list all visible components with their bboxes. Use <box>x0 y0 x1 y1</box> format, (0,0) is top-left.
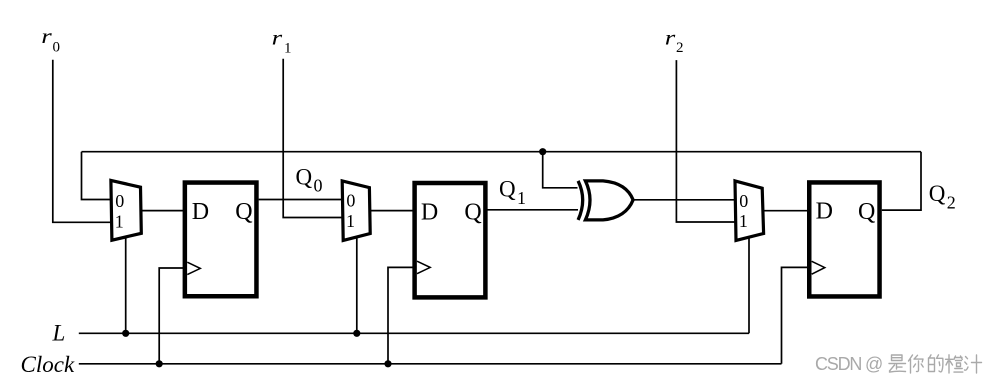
svg-text:r: r <box>665 26 677 50</box>
node r0 label <box>41 24 60 55</box>
wire mux2 output to FF2 D <box>370 210 412 212</box>
wire r2 vertical to mux3 input 1 <box>676 60 735 222</box>
wire feedback left vertical to mux1 input 0 <box>82 152 111 200</box>
wire r1 vertical to mux2 input 1 <box>283 59 342 218</box>
xor gate <box>578 181 633 220</box>
node Q1 label <box>499 176 526 208</box>
wire mux2 select down to L line <box>356 237 358 334</box>
wire FF2 Q output to xor bottom input <box>488 209 579 211</box>
svg-text:Q: Q <box>929 181 946 206</box>
svg-text:2: 2 <box>676 40 684 56</box>
svg-text:0: 0 <box>314 176 323 196</box>
svg-text:0: 0 <box>739 191 748 211</box>
svg-text:D: D <box>192 199 209 225</box>
wire Q2 output to feedback corner <box>882 152 921 210</box>
svg-text:D: D <box>421 199 438 225</box>
junction dot mux2 select on L <box>353 330 360 337</box>
wire mux3 output to FF3 D <box>764 210 808 212</box>
wire FF3 clock from Clock line end <box>782 267 810 363</box>
wire L line <box>79 332 749 334</box>
svg-text:L: L <box>52 321 66 346</box>
mux M1 <box>111 180 141 240</box>
junction dot FF1 clock on Clock <box>156 360 163 367</box>
wire xor output to mux3 input 0 <box>634 199 735 201</box>
junction dot mux1 select on L <box>122 330 129 337</box>
svg-text:2: 2 <box>947 192 956 212</box>
svg-text:1: 1 <box>346 211 355 231</box>
wire FF1 Q output to mux2 input 0 <box>259 199 342 201</box>
wire mux3 select down to L line end <box>748 237 750 334</box>
watermark chinese glyphs <box>889 355 982 373</box>
flip-flop FF1 <box>185 183 257 297</box>
svg-text:D: D <box>816 198 833 224</box>
wire feedback top horizontal <box>82 151 922 153</box>
svg-text:1: 1 <box>517 188 526 208</box>
junction dot on feedback line <box>539 148 546 155</box>
svg-text:Q: Q <box>858 199 875 225</box>
flip-flop FF2 <box>415 183 486 297</box>
wire mux1 select down to L line <box>125 237 127 334</box>
node r2 label <box>665 26 684 57</box>
svg-text:Q: Q <box>296 165 313 190</box>
svg-text:1: 1 <box>284 41 292 57</box>
svg-text:1: 1 <box>115 211 124 231</box>
svg-text:Clock: Clock <box>21 352 75 377</box>
node Q2 label <box>929 181 956 212</box>
svg-text:0: 0 <box>53 40 61 56</box>
flip-flop FF3 clock triangle <box>812 261 825 274</box>
wire mux1 output to FF1 D <box>141 210 183 212</box>
svg-text:1: 1 <box>739 211 748 231</box>
svg-text:Q: Q <box>499 176 516 201</box>
wire FF1 clock from Clock line <box>159 268 183 364</box>
svg-text:0: 0 <box>346 191 355 211</box>
svg-text:Q: Q <box>235 199 252 225</box>
mux M3 <box>735 181 764 241</box>
wire feedback branch down to xor top input <box>543 152 578 188</box>
wire r0 vertical to mux1 input 1 <box>53 60 111 223</box>
mux M2 <box>342 181 370 241</box>
flip-flop FF1 clock triangle <box>187 262 200 274</box>
node Q0 label <box>296 165 323 196</box>
wire Clock line <box>79 363 782 365</box>
node r1 label <box>272 25 292 56</box>
svg-text:0: 0 <box>115 191 124 211</box>
flip-flop FF3 <box>809 182 879 296</box>
svg-text:Q: Q <box>464 199 481 225</box>
junction dot FF2 clock on Clock <box>384 360 391 367</box>
svg-text:r: r <box>272 25 284 49</box>
svg-text:CSDN @: CSDN @ <box>815 354 882 374</box>
flip-flop FF2 clock triangle <box>417 261 430 274</box>
wire FF2 clock from Clock line <box>388 267 415 363</box>
svg-text:r: r <box>41 24 53 48</box>
